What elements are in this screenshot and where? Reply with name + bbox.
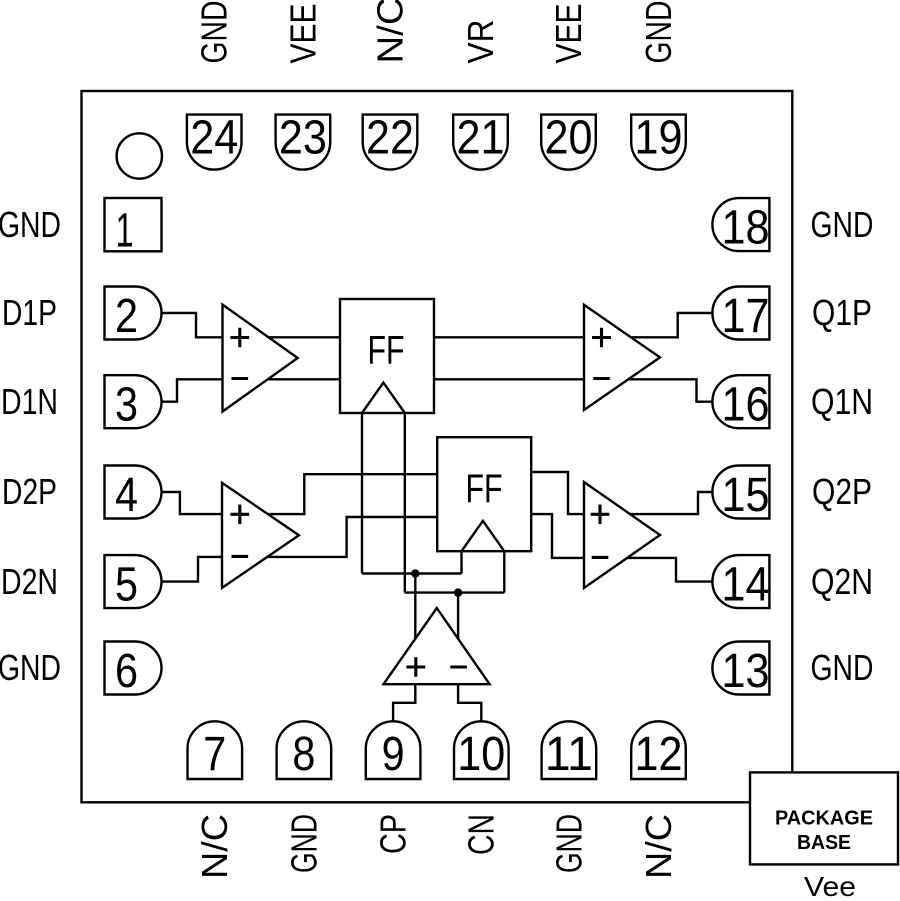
svg-text:D1N: D1N xyxy=(1,381,58,422)
svg-text:Q1P: Q1P xyxy=(812,292,872,333)
svg-text:GND: GND xyxy=(811,647,874,688)
svg-text:15: 15 xyxy=(722,469,770,522)
pin 18 (GND) xyxy=(712,198,769,251)
pin 9 (CP) xyxy=(366,721,421,779)
clock buffer A5 xyxy=(384,608,490,684)
input buffer A2 (D2) xyxy=(222,483,299,588)
svg-text:GND: GND xyxy=(283,814,324,873)
svg-text:4: 4 xyxy=(115,469,138,522)
svg-text:VR: VR xyxy=(460,20,501,64)
svg-text:24: 24 xyxy=(190,112,238,165)
minus of A1 xyxy=(232,377,249,380)
svg-text:D2N: D2N xyxy=(1,561,58,602)
svg-text:18: 18 xyxy=(722,202,770,255)
wire FF1 Q through output buffer A3 to pin 17 (Q1P) xyxy=(434,313,712,337)
pin 1 (GND) square pad xyxy=(105,198,162,251)
pin 24 (GND) xyxy=(187,115,242,170)
pin 5 (D2N) xyxy=(105,555,162,608)
wire FF1 clock+ down to CP rail xyxy=(361,413,363,574)
pin 3 (D1N) xyxy=(105,375,162,428)
pin 10 (CN) xyxy=(454,721,509,779)
input buffer A1 (D1) xyxy=(223,305,298,412)
svg-text:GND: GND xyxy=(638,1,679,64)
svg-text:GND: GND xyxy=(811,204,874,245)
plus of A1 xyxy=(230,328,249,348)
svg-text:N/C: N/C xyxy=(194,814,235,879)
plus of A2 xyxy=(230,505,249,525)
flip-flop FF1 xyxy=(340,299,434,413)
wire FF1 Qbar through output buffer A3 to pin 16 (Q1N) xyxy=(434,379,712,401)
svg-text:Q2N: Q2N xyxy=(811,561,873,602)
svg-text:20: 20 xyxy=(545,112,593,165)
plus of A4 xyxy=(591,505,610,525)
svg-text:21: 21 xyxy=(457,112,505,165)
svg-text:17: 17 xyxy=(722,290,770,343)
svg-text:GND: GND xyxy=(0,647,61,688)
svg-text:Q1N: Q1N xyxy=(811,381,873,422)
pin 13 (GND) xyxy=(712,642,769,695)
pin 7 (N/C) xyxy=(188,721,243,779)
pin 23 (VEE) xyxy=(276,115,331,170)
pin 8 (GND) xyxy=(277,721,332,779)
svg-text:14: 14 xyxy=(722,559,770,612)
wire FF2 Q through output buffer A4 to pin 15 (Q2P) xyxy=(531,472,712,514)
wire pin 2 (D1P) to input buffer A1 / FF1 D+ xyxy=(162,313,341,337)
wire FF2 clock- down to CN rail xyxy=(503,551,505,592)
wire FF2 Qbar through output buffer A4 to pin 14 (Q2N) xyxy=(531,514,712,582)
wire pin 5 (D2N) to input buffer A2 / FF2 D- xyxy=(162,517,438,582)
pin 2 (D1P) xyxy=(105,287,162,340)
pin 1 indicator circle xyxy=(117,133,162,178)
svg-text:5: 5 xyxy=(115,559,138,612)
pin 20 (VEE) xyxy=(541,115,596,170)
minus of A3 xyxy=(593,377,610,380)
svg-text:Q2P: Q2P xyxy=(812,471,872,512)
svg-text:PACKAGE: PACKAGE xyxy=(775,806,873,829)
svg-text:2: 2 xyxy=(115,290,138,343)
pin 4 (D2P) xyxy=(105,466,162,519)
svg-text:19: 19 xyxy=(635,112,683,165)
minus of A4 xyxy=(592,556,609,559)
pin 11 (GND) xyxy=(542,721,597,779)
flip-flop FF2 xyxy=(437,437,531,551)
plus of A5 (CP) xyxy=(406,657,425,677)
svg-text:FF: FF xyxy=(368,328,405,372)
pin 15 (Q2P) xyxy=(712,466,769,519)
pin 6 (GND) xyxy=(105,642,162,695)
svg-text:22: 22 xyxy=(366,112,414,165)
pin 21 (VR) xyxy=(453,115,508,170)
svg-text:3: 3 xyxy=(115,379,138,432)
svg-text:GND: GND xyxy=(548,814,589,873)
svg-text:12: 12 xyxy=(635,728,683,781)
svg-text:BASE: BASE xyxy=(797,831,851,854)
wire FF2 clock+ down to CP rail xyxy=(460,551,462,573)
svg-text:16: 16 xyxy=(722,379,770,432)
package base block xyxy=(750,772,898,864)
plus of A3 xyxy=(592,328,611,348)
pin 16 (Q1N) xyxy=(712,375,769,428)
svg-text:23: 23 xyxy=(279,112,327,165)
pin 22 (N/C) xyxy=(363,115,418,170)
svg-text:N/C: N/C xyxy=(638,814,679,879)
wire CN rail xyxy=(405,591,505,593)
svg-text:VEE: VEE xyxy=(282,4,323,64)
svg-text:D2P: D2P xyxy=(2,471,57,512)
pin 19 (GND) xyxy=(631,115,686,170)
svg-text:13: 13 xyxy=(722,645,770,698)
svg-text:8: 8 xyxy=(292,728,315,781)
minus of A5 (CN) xyxy=(450,665,467,668)
svg-text:CN: CN xyxy=(461,814,502,855)
svg-text:GND: GND xyxy=(0,204,61,245)
junction dot CP rail xyxy=(411,569,419,577)
wire clock buffer A5 - output up to CN rail and down to pin 10 (CN) xyxy=(458,593,481,722)
svg-text:N/C: N/C xyxy=(369,0,410,64)
svg-text:7: 7 xyxy=(203,728,226,781)
wire pin 4 (D2P) to input buffer A2 / FF2 D+ xyxy=(162,474,438,514)
output buffer A3 (Q1) xyxy=(584,305,660,410)
svg-text:D1P: D1P xyxy=(2,292,57,333)
svg-text:10: 10 xyxy=(457,728,505,781)
svg-text:9: 9 xyxy=(382,728,405,781)
wire pin 3 (D1N) to input buffer A1 / FF1 D- xyxy=(162,379,341,401)
wire FF1 clock- down to CN rail xyxy=(404,413,406,593)
wire clock buffer A5 + output up to CP rail and down to pin 9 (CP) xyxy=(393,574,415,723)
svg-text:FF: FF xyxy=(466,467,503,511)
pin 12 (N/C) xyxy=(631,721,686,779)
svg-text:6: 6 xyxy=(115,645,138,698)
svg-text:VEE: VEE xyxy=(548,4,589,64)
IC package outline xyxy=(82,91,793,802)
minus of A2 xyxy=(232,555,249,558)
output buffer A4 (Q2) xyxy=(584,482,660,588)
svg-text:1: 1 xyxy=(116,205,134,258)
junction dot CN rail xyxy=(454,588,462,596)
pin 14 (Q2N) xyxy=(712,555,769,608)
svg-text:Vee: Vee xyxy=(804,871,856,901)
pin 17 (Q1P) xyxy=(712,287,769,340)
wire CP rail xyxy=(362,572,462,574)
svg-text:GND: GND xyxy=(194,1,235,64)
svg-text:11: 11 xyxy=(545,728,593,781)
svg-text:CP: CP xyxy=(373,814,414,854)
